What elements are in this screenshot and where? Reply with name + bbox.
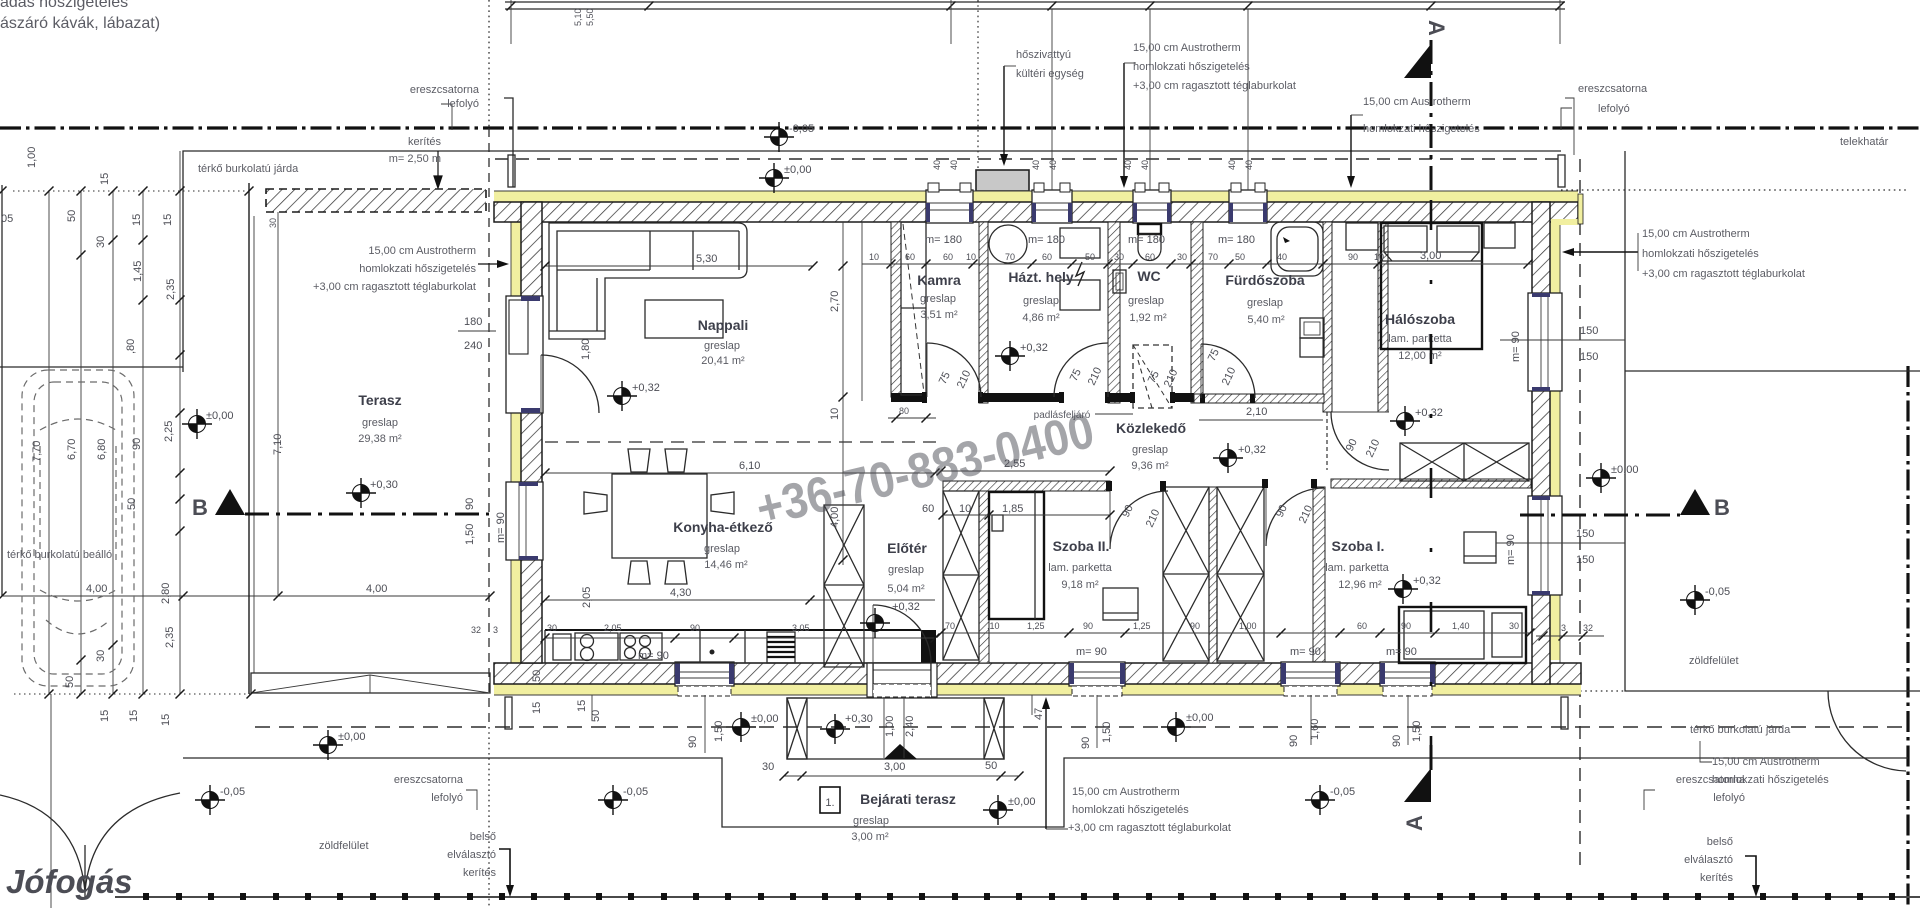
svg-text:B: B (1714, 495, 1730, 520)
svg-text:90: 90 (1348, 252, 1358, 262)
svg-text:12,96 m²: 12,96 m² (1338, 579, 1382, 591)
black jamb marks corridor doors (922, 392, 1317, 491)
svg-text:m= 90: m= 90 (1386, 646, 1417, 658)
ereszcsatorna leader bottom right (1644, 790, 1655, 810)
svg-text:3: 3 (493, 625, 498, 635)
corridor bottom wall hatched (943, 481, 1110, 491)
Bejarati terasz (820, 787, 840, 813)
sofa dim 5,30 (545, 265, 813, 267)
svg-text:40: 40 (1048, 160, 1058, 170)
partition Haloszoba left (1378, 222, 1388, 412)
window bottom Szoba I left (1281, 662, 1340, 696)
level marker -0,05 top (764, 122, 794, 152)
svg-text:3,00: 3,00 (1420, 250, 1441, 262)
svg-text:m= 180: m= 180 (925, 234, 962, 246)
corridor wardrobe left (943, 491, 979, 660)
gutter mark top right (1558, 155, 1565, 187)
svg-text:2,70: 2,70 (829, 291, 841, 312)
svg-text:±0,00: ±0,00 (206, 410, 233, 422)
roof overhang dashed bottom (255, 726, 1908, 728)
svg-text:30: 30 (95, 650, 107, 662)
svg-text:50: 50 (985, 760, 997, 772)
svg-text:-0,05: -0,05 (220, 786, 245, 798)
svg-text:±0,00: ±0,00 (751, 713, 778, 725)
svg-text:Nappali: Nappali (698, 317, 749, 333)
svg-text:WC: WC (1137, 268, 1160, 284)
svg-text:Közlekedő: Közlekedő (1116, 420, 1186, 436)
svg-text:greslap: greslap (1247, 297, 1283, 309)
level marker Eloter (860, 608, 890, 638)
svg-text:90: 90 (131, 438, 143, 450)
window right wall Szoba I (1528, 496, 1562, 595)
svg-text:+0,32: +0,32 (1413, 575, 1441, 587)
svg-text:térkő burkolatú beálló: térkő burkolatú beálló (7, 549, 112, 561)
svg-text:47: 47 (1033, 708, 1045, 720)
svg-text:150: 150 (1580, 325, 1598, 337)
svg-text:3,00 m²: 3,00 m² (851, 831, 889, 843)
door arc terrace (541, 355, 599, 413)
svg-text:3,51 m²: 3,51 m² (920, 309, 958, 321)
austrotherm bracket bottom right zone (1700, 741, 1712, 762)
terrace 7,10 extension (277, 189, 279, 596)
svg-text:6,70: 6,70 (66, 439, 78, 460)
svg-text:15: 15 (99, 710, 111, 722)
corridor top wall hatched segment under Furdo (1194, 394, 1324, 403)
svg-text:5,04 m²: 5,04 m² (887, 583, 925, 595)
dimension extension verticals left (48, 191, 50, 694)
svg-text:2,40: 2,40 (904, 716, 916, 737)
Kamra shelf (901, 222, 926, 395)
svg-text:ereszcsatorna: ereszcsatorna (410, 84, 480, 96)
partition SzobaII/SzobaI (between wardrobes) (1209, 487, 1217, 663)
svg-text:2,05: 2,05 (604, 623, 622, 633)
svg-text:m= 90: m= 90 (1076, 646, 1107, 658)
svg-text:4,00: 4,00 (86, 583, 107, 595)
partition Nappali/Kamra (891, 222, 901, 397)
svg-text:32: 32 (1583, 623, 1593, 633)
top dimension chain lines (505, 1, 1565, 3)
kerites bracket right (1745, 856, 1756, 890)
svg-text:Előtér: Előtér (887, 540, 927, 556)
tree symbol bottom left (0, 795, 85, 892)
yellow insulation bottom (494, 684, 1581, 695)
svg-text:greslap: greslap (1023, 295, 1059, 307)
svg-text:térkő burkolatú járda: térkő burkolatú járda (198, 163, 299, 175)
bottom interior dim row (545, 637, 935, 639)
svg-text:B: B (192, 495, 208, 520)
Haloszoba bed (1381, 223, 1482, 349)
svg-text:15,00 cm Austrotherm: 15,00 cm Austrotherm (1642, 228, 1750, 240)
svg-text:30: 30 (1177, 252, 1187, 262)
svg-text:150: 150 (1580, 351, 1598, 363)
svg-text:4,00: 4,00 (366, 583, 387, 595)
nightstand left (1346, 223, 1378, 250)
dotted line right bottom corner (1580, 690, 1627, 692)
svg-text:lefolyó: lefolyó (431, 792, 463, 804)
svg-text:90: 90 (464, 498, 476, 510)
svg-text:±0,00: ±0,00 (1008, 796, 1035, 808)
svg-text:15,00 cm Austrotherm: 15,00 cm Austrotherm (368, 245, 476, 257)
svg-text:15: 15 (576, 700, 588, 712)
svg-text:1,00: 1,00 (1239, 621, 1257, 631)
svg-text:1,50: 1,50 (1101, 722, 1113, 743)
svg-text:Bejárati terasz: Bejárati terasz (860, 791, 956, 807)
Szoba II table (1103, 588, 1138, 620)
svg-text:-0,05: -0,05 (1330, 786, 1355, 798)
svg-text:9,36 m²: 9,36 m² (1131, 460, 1169, 472)
svg-text:15: 15 (128, 710, 140, 722)
kitchen/Eloter black stub (921, 630, 936, 663)
fence bottom with posts (115, 896, 1920, 898)
entrance door bottom (867, 663, 937, 697)
ticks bottom row left (45, 690, 54, 699)
austrotherm leader right top (1350, 115, 1352, 182)
svg-text:kültéri egység: kültéri egység (1016, 68, 1084, 80)
svg-text:60: 60 (943, 252, 953, 262)
svg-text:ereszcsatorna: ereszcsatorna (394, 774, 464, 786)
level marker Kozlekedo (1213, 443, 1243, 473)
svg-text:70: 70 (1208, 252, 1218, 262)
level marker Szoba I (1388, 574, 1418, 604)
level marker -0,05 bottom A (1305, 785, 1335, 815)
level marker 0,00 bottom mid2 (1161, 712, 1191, 742)
bejarati terasz dims (784, 775, 1019, 777)
svg-text:30: 30 (1114, 252, 1124, 262)
svg-text:-0,05: -0,05 (623, 786, 648, 798)
yellow insulation left (511, 202, 521, 663)
svg-text:15,00 cm Austrotherm: 15,00 cm Austrotherm (1712, 756, 1820, 768)
svg-text:40: 40 (1227, 160, 1237, 170)
gutter mark top left of building (504, 98, 513, 187)
corridor top wall black segments (891, 393, 1194, 402)
svg-text:7,10: 7,10 (272, 434, 284, 455)
svg-text:1,50: 1,50 (713, 721, 725, 742)
svg-text:+0,32: +0,32 (1238, 444, 1266, 456)
dotted line right top (1561, 189, 1908, 191)
rotated 40 pairs top (932, 160, 1254, 170)
svg-text:1,85: 1,85 (1002, 503, 1023, 515)
svg-text:kerítés: kerítés (463, 867, 497, 879)
door arc Hazthely (1054, 343, 1108, 397)
austrotherm arrow right side (1568, 251, 1638, 253)
svg-text:10: 10 (829, 408, 841, 420)
heat pump unit (976, 170, 1029, 191)
svg-text:15: 15 (531, 702, 543, 714)
svg-text:lefolyó: lefolyó (1713, 792, 1745, 804)
svg-text:30: 30 (762, 761, 774, 773)
section A top flag (1430, 40, 1433, 190)
svg-text:elválasztó: elválasztó (1684, 854, 1733, 866)
window top Kamra (926, 183, 973, 223)
kitchen counter (545, 629, 921, 631)
svg-text:zöldfelület: zöldfelület (319, 840, 369, 852)
svg-text:belső: belső (1707, 836, 1733, 848)
nightstand right (1484, 223, 1515, 248)
level marker -0,05 bottom (598, 785, 628, 815)
svg-text:50: 50 (64, 676, 76, 688)
svg-text:150: 150 (1576, 528, 1594, 540)
window top Hazthely (1032, 183, 1072, 223)
austrotherm bracket bottom mid (1045, 703, 1047, 829)
Szoba II bed (989, 492, 1044, 619)
svg-text:3,05: 3,05 (792, 623, 810, 633)
svg-text:lefolyó: lefolyó (447, 98, 479, 110)
svg-text:5,40 m²: 5,40 m² (1247, 314, 1285, 326)
svg-text:greslap: greslap (1132, 444, 1168, 456)
tick row bottom (dotted) (14, 693, 251, 695)
svg-text:15,00 cm Austrotherm: 15,00 cm Austrotherm (1133, 42, 1241, 54)
section B line right (1520, 514, 1680, 517)
entrance terrace outline (787, 698, 1004, 759)
svg-text:+0,32: +0,32 (892, 601, 920, 613)
svg-text:homlokzati hőszigetelés: homlokzati hőszigetelés (1363, 123, 1480, 135)
svg-text:40: 40 (1123, 160, 1133, 170)
svg-text:+3,00 cm ragasztott téglaburko: +3,00 cm ragasztott téglaburkolat (1642, 268, 1805, 280)
gutter mark bottom right (1561, 697, 1568, 729)
svg-text:1.: 1. (825, 797, 834, 809)
svg-text:2,25: 2,25 (163, 421, 175, 442)
level marker +0,30 entrance (820, 714, 850, 744)
level marker terrace +0,30 (346, 478, 376, 508)
sofa L-shape Nappali (549, 223, 747, 339)
svg-text:2,05: 2,05 (581, 587, 593, 608)
interior top dim row y264 (862, 263, 1532, 265)
svg-text:9,18 m²: 9,18 m² (1061, 579, 1099, 591)
svg-text:30: 30 (95, 236, 107, 248)
window bottom kitchen (675, 662, 734, 696)
level marker Hazthely (995, 341, 1025, 371)
svg-text:Terasz: Terasz (358, 392, 401, 408)
svg-text:1,50: 1,50 (464, 524, 476, 545)
svg-text:kerítés: kerítés (408, 136, 442, 148)
6,10 / 4,30 (545, 472, 935, 474)
window right wall Haloszoba (1528, 293, 1562, 391)
svg-text:m= 90: m= 90 (495, 512, 507, 543)
svg-text:15: 15 (162, 214, 174, 226)
svg-text:15,00 cm Austrotherm: 15,00 cm Austrotherm (1072, 786, 1180, 798)
boiler circle Hazthely (989, 225, 1027, 263)
svg-text:homlokzati hőszigetelés: homlokzati hőszigetelés (1072, 804, 1189, 816)
property boundary dash-dot top (0, 126, 1920, 129)
svg-text:10: 10 (959, 503, 971, 515)
svg-text:6,80: 6,80 (96, 439, 108, 460)
svg-text:15: 15 (160, 714, 172, 726)
sink (575, 633, 618, 660)
svg-text:+0,32: +0,32 (632, 382, 660, 394)
svg-text:3: 3 (1561, 623, 1566, 633)
svg-text:10: 10 (966, 252, 976, 262)
svg-text:50: 50 (126, 498, 138, 510)
level marker 0,00 bottom mid (726, 712, 756, 742)
svg-text:kerítés: kerítés (1700, 872, 1734, 884)
WC sink (1113, 270, 1126, 293)
svg-text:90: 90 (1080, 737, 1092, 749)
level marker 0,00 top (759, 163, 789, 193)
svg-text:1,25: 1,25 (1027, 621, 1045, 631)
exterior wall bottom (hatched) (494, 663, 1581, 684)
svg-text:lam. parketta: lam. parketta (1325, 562, 1389, 574)
svg-text:40: 40 (1277, 252, 1287, 262)
Szoba I table (1464, 532, 1496, 563)
svg-text:2,35: 2,35 (165, 279, 177, 300)
level marker 0,00 right (1586, 463, 1616, 493)
bathtub (1271, 222, 1323, 276)
level marker -0,05 bottom far left (195, 785, 225, 815)
svg-text:2,35: 2,35 (164, 627, 176, 648)
svg-text:4,86 m²: 4,86 m² (1022, 312, 1060, 324)
Eloter tall wardrobe (824, 505, 864, 667)
svg-text:30: 30 (547, 623, 557, 633)
svg-text:A: A (1424, 20, 1449, 36)
roof overhang dashed top (495, 158, 1561, 160)
svg-text:2,10: 2,10 (1246, 406, 1267, 418)
svg-text:2,80: 2,80 (160, 583, 172, 604)
partition Eloter/SzobaII (979, 491, 989, 663)
svg-text:Konyha-étkező: Konyha-étkező (673, 519, 773, 535)
svg-text:Fürdőszoba: Fürdőszoba (1225, 272, 1305, 288)
szoba II top dims (943, 514, 1110, 516)
svg-text:180: 180 (464, 316, 482, 328)
svg-text:15: 15 (99, 173, 111, 185)
svg-text:±0,00: ±0,00 (1186, 712, 1213, 724)
svg-text:90: 90 (690, 623, 700, 633)
svg-text:+3,00 cm ragasztott téglaburko: +3,00 cm ragasztott téglaburkolat (1133, 80, 1296, 92)
svg-text:telekhatár: telekhatár (1840, 136, 1889, 148)
svg-text:m= 180: m= 180 (1128, 234, 1165, 246)
level marker terrace 0,00 (182, 409, 212, 439)
svg-text:5,10: 5,10 (573, 8, 583, 26)
right side 150/150 pairs (1500, 339, 1625, 341)
dining table (612, 474, 707, 558)
2,10 under Furdo (1199, 419, 1323, 421)
left margin vertical (1, 185, 3, 596)
svg-text:m= 90: m= 90 (1290, 646, 1321, 658)
exterior wall right (hatched) (1532, 202, 1550, 684)
svg-text:7,70: 7,70 (31, 441, 43, 462)
chairs (584, 449, 734, 584)
svg-text:70: 70 (945, 621, 955, 631)
svg-text:Hálószoba: Hálószoba (1385, 311, 1455, 327)
wardrobe row Szoba I top (1400, 443, 1529, 481)
svg-text:1,25: 1,25 (1133, 621, 1151, 631)
svg-text:±0,00: ±0,00 (1611, 464, 1638, 476)
window top WC (1133, 183, 1171, 223)
austrotherm leader mid top (1123, 63, 1125, 182)
svg-text:20,41 m²: 20,41 m² (701, 355, 745, 367)
property boundary dash-dot right (1906, 366, 1909, 908)
austrotherm arrow left side (terrace) (478, 263, 502, 265)
svg-text:belső: belső (470, 831, 496, 843)
svg-text:homlokzati hőszigetelés: homlokzati hőszigetelés (359, 263, 476, 275)
svg-text:,10: ,10 (987, 621, 1000, 631)
svg-text:lefolyó: lefolyó (1598, 103, 1630, 115)
attic access dashed box (padlasfeljaro) (1133, 345, 1172, 408)
svg-text:90: 90 (1391, 735, 1403, 747)
svg-text:greslap: greslap (853, 815, 889, 827)
svg-text:3,00: 3,00 (884, 761, 905, 773)
2,55 corridor (941, 470, 1110, 472)
svg-text:60: 60 (922, 503, 934, 515)
svg-text:40: 40 (1031, 160, 1041, 170)
svg-text:,80: ,80 (125, 339, 137, 354)
svg-text:32: 32 (471, 625, 481, 635)
svg-text:05: 05 (1, 213, 13, 225)
svg-text:240: 240 (464, 340, 482, 352)
svg-text:4,30: 4,30 (670, 587, 691, 599)
svg-text:60: 60 (1042, 252, 1052, 262)
yellow insulation top (494, 191, 1578, 202)
driveway arc bottom right (1828, 691, 1906, 771)
rug rect Nappali (645, 300, 723, 338)
Szoba I bed (1399, 607, 1526, 663)
svg-text:40: 40 (949, 160, 959, 170)
belso elvalaszto kerites bracket (499, 849, 510, 890)
partition Kamra/Hazthely (979, 222, 988, 403)
svg-text:1,00: 1,00 (884, 716, 896, 737)
wardrobe column SzII (1163, 487, 1209, 661)
svg-text:50: 50 (1235, 252, 1245, 262)
svg-text:m= 180: m= 180 (1028, 234, 1065, 246)
door WC dashed (1138, 360, 1152, 408)
below-wall labels bottom (576, 700, 1423, 749)
partition Szoba I left (1313, 487, 1325, 663)
partition WC/Furdoszoba (1191, 222, 1203, 403)
tick row top (dotted) (13, 190, 249, 192)
svg-text:greslap: greslap (704, 543, 740, 555)
svg-text:+0,32: +0,32 (1415, 407, 1443, 419)
svg-text:Szoba II.: Szoba II. (1053, 538, 1110, 554)
svg-text:Jófogás: Jófogás (6, 863, 133, 900)
ticks top row left (0, 187, 7, 196)
vertical dim 2,70/4,00 kitchen (842, 222, 844, 565)
svg-text:1,40: 1,40 (1452, 621, 1470, 631)
svg-text:m= 180: m= 180 (1218, 234, 1255, 246)
level marker -0,05 right (1680, 585, 1710, 615)
ereszcsatorna leader top right (1561, 108, 1572, 130)
eaves dotted vertical left (488, 0, 490, 128)
yellow insulation right (1550, 222, 1560, 660)
svg-text:Házt. hely: Házt. hely (1008, 269, 1074, 285)
svg-text:150: 150 (1576, 554, 1594, 566)
svg-text:40: 40 (1140, 160, 1150, 170)
svg-text:térkő burkolatú járda: térkő burkolatú járda (1690, 724, 1791, 736)
svg-text:5,30: 5,30 (696, 253, 717, 265)
svg-text:m= 90: m= 90 (638, 650, 669, 662)
window bottom Szoba II (1069, 662, 1125, 696)
door arc Szoba II (1110, 491, 1168, 549)
exterior wall top (hatched) (494, 202, 1578, 222)
svg-text:Szoba I.: Szoba I. (1332, 538, 1385, 554)
bath sink (1300, 318, 1324, 338)
svg-text:m= 2,50 m: m= 2,50 m (389, 153, 441, 165)
yard outline right area (1625, 151, 1920, 691)
svg-text:90: 90 (1288, 735, 1300, 747)
dotted vertical at heat pump (977, 0, 979, 190)
svg-text:90: 90 (1190, 621, 1200, 631)
dim line 4,00 row (2, 595, 490, 597)
car dashed outline (22, 370, 134, 686)
svg-text:homlokzati hőszigetelés: homlokzati hőszigetelés (1133, 61, 1250, 73)
svg-text:lam. parketta: lam. parketta (1388, 333, 1452, 345)
svg-text:zöldfelület: zöldfelület (1689, 655, 1739, 667)
svg-text:40: 40 (932, 160, 942, 170)
terrace left double wall (248, 183, 250, 694)
svg-text:+3,00 cm ragasztott téglaburko: +3,00 cm ragasztott téglaburkolat (313, 281, 476, 293)
svg-text:A: A (1402, 815, 1427, 831)
svg-text:+0,32: +0,32 (1020, 342, 1048, 354)
terrace bottom ramp (251, 673, 490, 693)
svg-text:90: 90 (1401, 621, 1411, 631)
